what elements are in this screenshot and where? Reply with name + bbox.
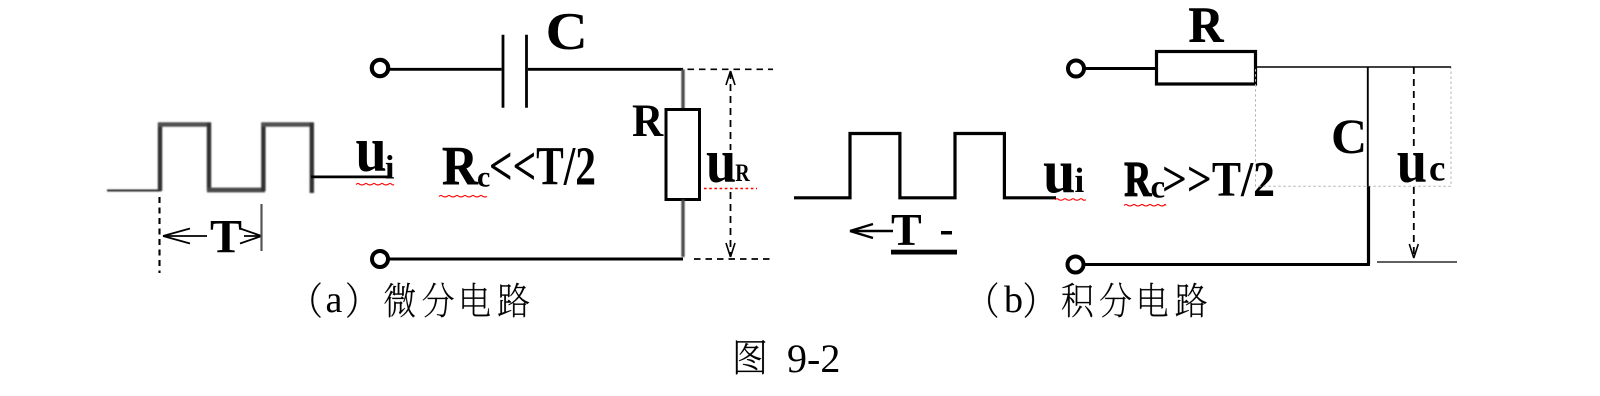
svg-text:T: T bbox=[210, 211, 242, 264]
svg-text:R: R bbox=[442, 136, 479, 197]
svg-text:a: a bbox=[326, 279, 343, 321]
svg-text:c: c bbox=[1429, 149, 1445, 190]
svg-text:u: u bbox=[1043, 137, 1075, 206]
svg-text:u: u bbox=[356, 114, 387, 185]
svg-text:>>T/2: >>T/2 bbox=[1162, 151, 1275, 207]
svg-text:R: R bbox=[735, 159, 750, 187]
svg-text:<<T/2: <<T/2 bbox=[489, 136, 596, 197]
svg-text:C: C bbox=[546, 3, 588, 62]
svg-text:u: u bbox=[706, 126, 736, 195]
svg-text:C: C bbox=[1331, 108, 1367, 164]
svg-text:i: i bbox=[385, 150, 394, 187]
svg-text:T: T bbox=[891, 204, 922, 255]
svg-text:R: R bbox=[1189, 0, 1225, 53]
svg-text:9-2: 9-2 bbox=[787, 336, 840, 381]
svg-text:i: i bbox=[1075, 161, 1085, 200]
svg-text:b: b bbox=[1004, 279, 1023, 321]
svg-text:R: R bbox=[1124, 151, 1152, 206]
svg-text:u: u bbox=[1397, 126, 1427, 195]
svg-text:R: R bbox=[632, 94, 664, 146]
